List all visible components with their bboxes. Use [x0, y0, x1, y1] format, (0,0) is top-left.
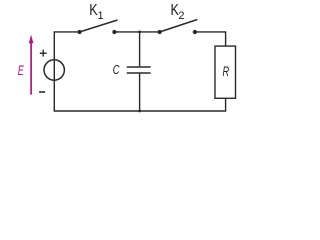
svg-text:C: C	[113, 62, 120, 77]
svg-text:1: 1	[98, 10, 104, 22]
svg-text:E: E	[18, 63, 25, 78]
svg-text:2: 2	[178, 10, 184, 22]
svg-text:R: R	[223, 64, 230, 79]
